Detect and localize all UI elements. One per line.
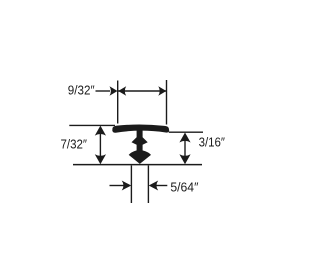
dimension label 9/32 leader line [96,90,111,92]
dimension line 7/32 vertical x=100.4 [99,128,101,161]
dimension line 3/16 vertical x=185 [184,135,186,161]
arrowhead 3/16 top pointing up [179,133,190,143]
dimension line 9/32 horizontal [118,90,166,92]
baseline surface line y=164.6 [73,164,202,166]
T-molding profile stem with barbs and arrow tip [129,130,151,164]
arrowhead 3/16 bottom pointing down [179,154,190,164]
arrowhead 5/64 right pointing left [149,181,159,191]
arrowhead 5/64 left pointing right [122,181,132,191]
arrowhead 9/32 dim line left end pointing left [118,86,126,96]
dimension leader 5/64 left stub [110,185,125,187]
extension line top of profile (7/32 height, y=125.4) [69,124,115,126]
extension line right (9/32 width, x=166.5) [166,80,168,125]
extension line left (9/32 width, x=117.7) [117,81,119,124]
svg-text:9/32″: 9/32″ [68,83,95,98]
arrowhead 9/32 dim line right end pointing right [158,86,166,96]
extension line below baseline left (5/64, x=131.4) [130,166,132,204]
svg-text:5/64″: 5/64″ [170,180,198,195]
extension line below baseline right (5/64, x=148.4) [147,166,149,204]
dimension leader 5/64 right stub [156,185,167,187]
arrowhead leader 9/32 pointing right at left extension line [110,86,118,96]
svg-text:7/32″: 7/32″ [61,137,88,152]
arrowhead 7/32 bottom pointing down [95,154,106,164]
T-molding profile cap [112,125,169,133]
extension line under cap right (3/16 height, y=132.2) [169,131,203,133]
svg-text:3/16″: 3/16″ [199,134,226,149]
arrowhead 7/32 top pointing up [95,126,106,136]
